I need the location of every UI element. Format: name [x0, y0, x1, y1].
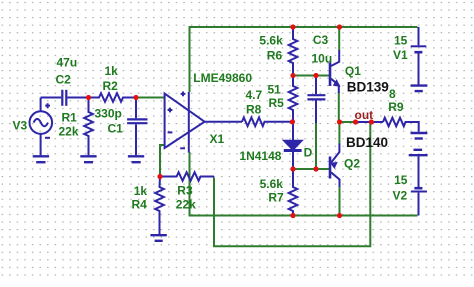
svg-text:10u: 10u — [312, 52, 333, 66]
ground (C1) — [128, 156, 144, 162]
svg-text:X1: X1 — [210, 132, 225, 146]
wire negative rail — [190, 152, 418, 216]
diode D — [284, 122, 302, 169]
node feedback R3/R4 — [157, 174, 162, 179]
resistor R9 — [383, 118, 419, 132]
svg-text:1k: 1k — [134, 184, 148, 198]
svg-text:15: 15 — [394, 33, 408, 47]
svg-text:5.6k: 5.6k — [260, 177, 284, 191]
voltage source V3 — [30, 98, 53, 156]
svg-text:47u: 47u — [57, 56, 78, 70]
node rail/R6 — [290, 24, 295, 29]
ground (V1) — [411, 86, 428, 92]
svg-text:R4: R4 — [132, 198, 148, 212]
svg-text:R9: R9 — [388, 100, 404, 114]
wire feedback from R3 down and right to output — [214, 122, 370, 246]
svg-text:V1: V1 — [393, 48, 408, 62]
resistor R7 — [289, 169, 298, 216]
svg-text:330p: 330p — [95, 107, 122, 121]
ground (R4) — [150, 235, 166, 241]
wire op-amp output to R8 — [205, 121, 242, 123]
capacitor C3 — [307, 76, 325, 124]
svg-text:R1: R1 — [62, 111, 78, 125]
wire base node bottom (D/R7 to Q2 base) — [293, 168, 330, 170]
resistor R2 — [89, 93, 137, 102]
node out/R9/feedback — [369, 119, 374, 124]
svg-text:V3: V3 — [13, 119, 28, 133]
battery V2 — [411, 156, 427, 215]
svg-text:C2: C2 — [56, 73, 72, 87]
svg-text:Q2: Q2 — [344, 157, 360, 171]
ground (V3) — [33, 156, 49, 162]
node C2/R1/R2 — [86, 95, 91, 100]
wire out node row — [339, 121, 356, 123]
capacitor C2 — [41, 90, 89, 106]
node D/R7/base — [290, 166, 295, 171]
transistor Q2 — [330, 144, 340, 188]
resistor R3 — [160, 172, 214, 181]
node Q2 collector/rail — [337, 213, 342, 218]
ground (V2 top, flipped) — [409, 150, 428, 155]
wire base node top (R6/R5 to Q1 base) — [293, 75, 330, 77]
svg-text:out: out — [355, 108, 374, 122]
node rail/Q1 collector — [337, 24, 342, 29]
svg-text:Q1: Q1 — [345, 64, 361, 78]
svg-text:R3: R3 — [177, 184, 193, 198]
wire Q2 emitter to out node — [338, 122, 340, 145]
svg-text:R7: R7 — [268, 191, 284, 205]
wire op-amp -input to feedback node — [160, 145, 165, 177]
node R2/C1/op-amp input — [133, 95, 138, 100]
node R6/R5/base — [290, 73, 295, 78]
svg-text:1k: 1k — [105, 64, 119, 78]
node base/C3 bottom — [313, 166, 318, 171]
wire out to R9 — [371, 121, 383, 123]
resistor R4 — [155, 177, 164, 235]
resistor R1 — [84, 98, 93, 156]
node base/C3 top — [313, 73, 318, 78]
ground (R9) — [411, 133, 428, 139]
resistor R6 — [289, 27, 298, 76]
svg-text:C1: C1 — [108, 122, 124, 136]
svg-text:R2: R2 — [103, 79, 119, 93]
svg-text:R5: R5 — [269, 96, 285, 110]
transistor Q1 — [330, 50, 340, 93]
ground (R1) — [80, 156, 96, 162]
svg-text:V2: V2 — [393, 188, 408, 202]
svg-text:R8: R8 — [246, 103, 262, 117]
wire C3 bottom lead to lower base node — [315, 122, 317, 169]
resistor R5 — [289, 76, 298, 122]
op-amp X1 — [165, 92, 205, 153]
wire Q1 collector to top rail — [338, 27, 340, 50]
svg-text:22k: 22k — [176, 198, 196, 212]
svg-text:15: 15 — [394, 173, 408, 187]
resistor R8 — [242, 118, 293, 127]
svg-text:5.6k: 5.6k — [259, 34, 283, 48]
wire Q1 emitter to out node — [338, 92, 340, 122]
capacitor C1 — [127, 98, 147, 156]
node out middle — [353, 119, 358, 124]
svg-text:C3: C3 — [313, 33, 329, 47]
svg-text:51: 51 — [268, 83, 282, 97]
node out/emitters — [337, 119, 342, 124]
wire from R2 to op-amp +input — [136, 97, 165, 99]
wire top positive rail — [190, 27, 418, 92]
svg-text:BD140: BD140 — [346, 135, 388, 150]
svg-text:BD139: BD139 — [347, 79, 389, 94]
battery V1 — [411, 27, 427, 85]
node R8/R5/D — [290, 119, 295, 124]
node R7/rail — [290, 213, 295, 218]
svg-text:R6: R6 — [267, 48, 283, 62]
svg-text:1N4148: 1N4148 — [239, 149, 281, 163]
wire Q2 collector to negative rail — [339, 186, 341, 216]
svg-text:4.7: 4.7 — [246, 88, 263, 102]
svg-text:D: D — [304, 146, 313, 160]
svg-text:22k: 22k — [59, 125, 79, 139]
svg-text:LME49860: LME49860 — [193, 71, 252, 85]
